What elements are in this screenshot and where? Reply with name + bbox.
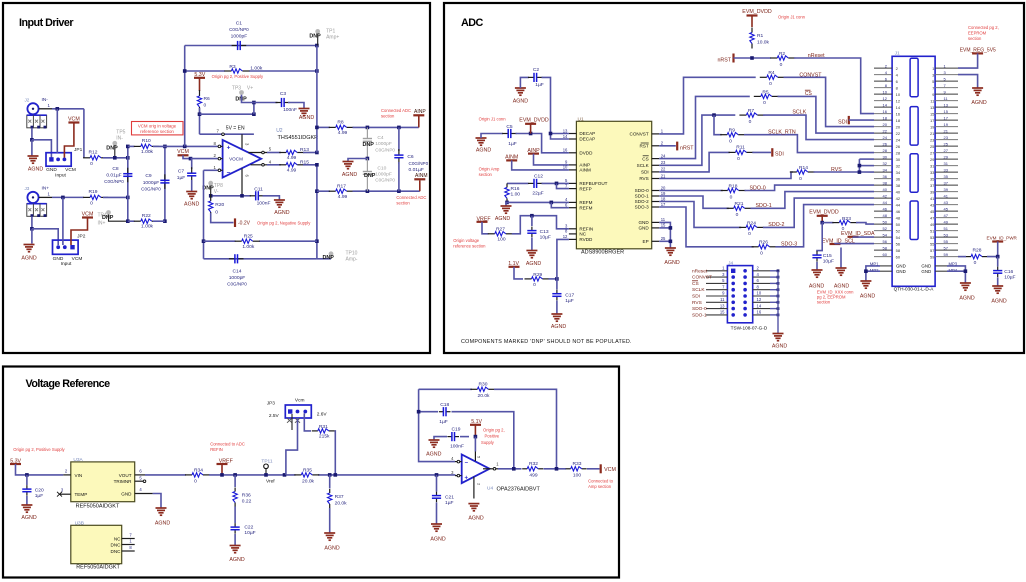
svg-text:49: 49 bbox=[944, 219, 949, 224]
svg-text:55: 55 bbox=[930, 241, 935, 246]
U1 pin 21 RVS bbox=[652, 178, 660, 180]
junction bbox=[163, 219, 167, 223]
svg-text:15: 15 bbox=[930, 111, 935, 116]
svg-text:SCLK: SCLK bbox=[637, 163, 650, 168]
svg-text:10: 10 bbox=[757, 291, 762, 296]
resistor R33 bbox=[566, 468, 571, 470]
svg-text:39: 39 bbox=[930, 189, 935, 194]
wire to TP10 bbox=[317, 258, 331, 260]
svg-text:20: 20 bbox=[661, 185, 666, 190]
svg-text:AGND: AGND bbox=[28, 167, 43, 173]
svg-text:SDO-2: SDO-2 bbox=[768, 222, 784, 228]
net tie SDI (R11) bbox=[771, 148, 773, 156]
svg-text:R7: R7 bbox=[748, 108, 755, 114]
power flag EVM_DVDD bbox=[747, 14, 758, 16]
wire C6 to AINM rail bbox=[398, 162, 400, 191]
wire C19 to AGND bbox=[434, 437, 447, 440]
svg-text:GND: GND bbox=[638, 220, 649, 225]
svg-text:AGND: AGND bbox=[468, 516, 483, 522]
svg-text:AINM: AINM bbox=[505, 155, 518, 161]
svg-text:36: 36 bbox=[883, 174, 888, 179]
junction bbox=[505, 201, 509, 205]
svg-text:42: 42 bbox=[883, 193, 888, 198]
svg-text:0: 0 bbox=[974, 260, 977, 266]
svg-text:ADS8900BRGER: ADS8900BRGER bbox=[581, 249, 624, 255]
svg-text:C1: C1 bbox=[236, 21, 243, 27]
wire CONVST to J1 row20 bbox=[784, 77, 875, 126]
svg-text:C6: C6 bbox=[407, 154, 414, 160]
svg-text:Input: Input bbox=[61, 261, 72, 267]
wire J1 pin3 to AGND bbox=[958, 75, 978, 88]
svg-text:+: + bbox=[465, 476, 469, 482]
svg-text:DVDD: DVDD bbox=[579, 151, 593, 156]
wire pin2 to nRST bbox=[659, 145, 676, 147]
svg-text:C22: C22 bbox=[244, 525, 253, 531]
U1 pin 22 SDI bbox=[652, 171, 660, 173]
svg-text:JP3: JP3 bbox=[267, 401, 276, 407]
svg-text:31: 31 bbox=[930, 163, 935, 168]
svg-text:0: 0 bbox=[194, 479, 197, 485]
svg-text:VCM: VCM bbox=[82, 211, 94, 217]
svg-text:REFIN: REFIN bbox=[210, 447, 223, 452]
op-amp U4 pin 3 (+in) bbox=[455, 475, 462, 477]
svg-text:10µF: 10µF bbox=[244, 530, 255, 536]
svg-text:MP2: MP2 bbox=[870, 268, 879, 273]
wire R6 to V+ rail bbox=[199, 108, 201, 134]
svg-text:C11: C11 bbox=[254, 186, 263, 192]
svg-text:1µF: 1µF bbox=[508, 141, 517, 147]
resistor R28 bbox=[966, 256, 971, 258]
U1 pin 18 SDO-2 bbox=[652, 201, 660, 203]
wire row59 to R28 bbox=[958, 256, 966, 258]
wire to C13 bbox=[531, 216, 533, 226]
svg-text:26: 26 bbox=[883, 141, 888, 146]
svg-text:R25: R25 bbox=[244, 234, 253, 240]
wire rail to opamp bbox=[318, 474, 456, 476]
ground AGND (C19) bbox=[429, 439, 440, 441]
svg-text:60: 60 bbox=[883, 252, 888, 257]
svg-text:SCLK: SCLK bbox=[792, 110, 806, 116]
wire to C21 bbox=[436, 475, 438, 492]
IC U1 (ADS8900BRGER) bbox=[576, 121, 651, 249]
svg-text:C13: C13 bbox=[540, 229, 549, 235]
wire feedback to -in bbox=[419, 389, 455, 461]
wire to pin7 REFP bbox=[557, 183, 569, 188]
junction bbox=[209, 194, 213, 198]
svg-text:AGND: AGND bbox=[21, 515, 36, 521]
wire V- rail bbox=[211, 195, 251, 197]
svg-text:SDO-2: SDO-2 bbox=[635, 199, 649, 204]
U1 pin 1 CONVST bbox=[652, 133, 660, 135]
svg-text:VCM: VCM bbox=[72, 256, 83, 262]
U1 pin 25 EP bbox=[652, 240, 660, 242]
capacitor C4 (DNP) bbox=[366, 127, 368, 138]
svg-text:12: 12 bbox=[563, 234, 568, 239]
wire row30 bbox=[859, 158, 874, 160]
resistor R7 bbox=[739, 114, 746, 116]
svg-text:24: 24 bbox=[896, 137, 901, 142]
wire VCM to pin2 bbox=[183, 155, 218, 158]
svg-text:AGND: AGND bbox=[430, 537, 445, 543]
svg-text:25: 25 bbox=[930, 144, 935, 149]
svg-text:R11: R11 bbox=[736, 144, 745, 150]
capacitor C5 bbox=[502, 133, 508, 135]
wire RVS bus rows30-34 bbox=[858, 159, 860, 172]
wire REFM line bbox=[507, 201, 569, 203]
svg-text:10: 10 bbox=[883, 89, 888, 94]
op-amp U2 pin 1 (-in) bbox=[218, 169, 223, 171]
svg-text:R22: R22 bbox=[142, 213, 151, 219]
svg-text:0: 0 bbox=[90, 200, 93, 206]
connector J4 (TSW-108-07-G-D) bbox=[727, 266, 752, 323]
svg-text:AGND: AGND bbox=[495, 216, 510, 222]
wire R25 right bbox=[259, 240, 317, 242]
svg-text:−: − bbox=[465, 461, 469, 467]
wire node N vertical bbox=[316, 165, 318, 259]
U1 pin 13 DECAP bbox=[569, 133, 577, 135]
wire C17 to AGND bbox=[556, 301, 558, 315]
svg-text:AGND: AGND bbox=[426, 451, 441, 457]
junction bbox=[189, 157, 193, 161]
wire C4/C10 midpoint to AGND bbox=[348, 159, 367, 162]
svg-text:20.0k: 20.0k bbox=[302, 479, 315, 485]
wire R10 node to opamp +in bbox=[153, 145, 218, 147]
wire C18 right to output bbox=[452, 412, 514, 469]
svg-text:13: 13 bbox=[720, 303, 725, 308]
op-amp U4 power pin 2 bbox=[473, 477, 475, 499]
wire J2 shield to gnd bbox=[31, 128, 33, 140]
svg-text:0: 0 bbox=[780, 62, 783, 68]
svg-text:C16: C16 bbox=[1004, 269, 1013, 275]
svg-text:C0G/NP0: C0G/NP0 bbox=[375, 178, 395, 183]
wire R3 right bbox=[249, 70, 317, 72]
svg-text:AGND: AGND bbox=[299, 115, 314, 121]
wire to AGND R16 bbox=[506, 202, 507, 206]
svg-text:section: section bbox=[396, 200, 410, 205]
junction bbox=[183, 145, 187, 149]
svg-text:EVM_DVDD: EVM_DVDD bbox=[742, 9, 772, 15]
wire EVM_DVDD stub2 bbox=[821, 216, 823, 223]
svg-text:5V = EN: 5V = EN bbox=[226, 125, 245, 131]
svg-text:R17: R17 bbox=[337, 183, 346, 189]
svg-text:nRST: nRST bbox=[680, 145, 694, 151]
wire SCLK to J1 row24 bbox=[763, 115, 874, 140]
junction bbox=[529, 132, 533, 136]
U1 pin 24 CS bbox=[652, 158, 660, 160]
svg-text:22: 22 bbox=[896, 131, 901, 136]
wire JP3 center to rail bbox=[286, 418, 298, 475]
svg-text:AGND: AGND bbox=[526, 261, 541, 267]
junction bbox=[25, 473, 29, 477]
svg-text:R23: R23 bbox=[842, 216, 851, 222]
capacitor C12 bbox=[528, 182, 534, 184]
svg-text:13: 13 bbox=[563, 128, 568, 133]
wire node to pin12 RVDD bbox=[557, 239, 569, 279]
wire VREF rail bbox=[209, 474, 296, 476]
capacitor C1 bbox=[232, 45, 238, 47]
svg-text:R29: R29 bbox=[533, 272, 542, 278]
svg-text:Input: Input bbox=[55, 173, 66, 179]
svg-text:13: 13 bbox=[944, 102, 949, 107]
IC U3B (REF5050AIDGKT) bbox=[71, 525, 122, 563]
wire filter left vertical bbox=[127, 146, 129, 221]
wire SCLK up bbox=[659, 115, 735, 165]
svg-text:J4: J4 bbox=[728, 260, 733, 266]
capacitor C3 bbox=[276, 102, 282, 104]
section box: ADC bbox=[444, 3, 1024, 353]
U1 pin 11 GND bbox=[652, 221, 660, 223]
power flag EVM_DVDD bbox=[817, 215, 828, 217]
svg-text:REFM: REFM bbox=[579, 200, 592, 205]
svg-text:RVS: RVS bbox=[692, 300, 702, 306]
resistor R26 bbox=[752, 246, 759, 248]
svg-text:AGND: AGND bbox=[860, 294, 875, 300]
wire IN+ down to JP2 center bbox=[62, 197, 64, 245]
wire to VCM tie bbox=[587, 468, 600, 470]
wire bbox=[128, 220, 135, 222]
svg-text:Origin pg 2, Positive Supply: Origin pg 2, Positive Supply bbox=[13, 447, 65, 452]
svg-text:R18: R18 bbox=[729, 184, 738, 190]
wire bbox=[460, 436, 469, 438]
J4 row 11/12 (RVS) bbox=[706, 301, 727, 303]
svg-text:GND: GND bbox=[638, 226, 649, 231]
wire gnd to JP1 pin1 bbox=[32, 140, 52, 159]
resistor R6 bbox=[199, 90, 201, 96]
wire MP to AGND bbox=[866, 266, 880, 281]
U1 pin 5 REFBUFOUT bbox=[569, 182, 577, 184]
svg-text:33: 33 bbox=[944, 167, 949, 172]
svg-text:499: 499 bbox=[529, 472, 537, 478]
svg-text:55: 55 bbox=[944, 239, 949, 244]
svg-text:26: 26 bbox=[896, 144, 901, 149]
wire R13 to node P bbox=[303, 152, 317, 154]
svg-text:15: 15 bbox=[720, 310, 725, 315]
svg-text:MP4: MP4 bbox=[949, 268, 958, 273]
capacitor C7 bbox=[191, 167, 193, 173]
svg-text:41: 41 bbox=[944, 193, 949, 198]
svg-text:GND: GND bbox=[896, 269, 906, 274]
section box: Voltage Reference bbox=[3, 367, 619, 578]
svg-text:56: 56 bbox=[883, 239, 888, 244]
wire row32 bbox=[859, 165, 874, 167]
op-amp U2 pin 8 (+in) bbox=[218, 145, 223, 147]
svg-text:31: 31 bbox=[944, 161, 949, 166]
svg-text:11: 11 bbox=[661, 217, 666, 222]
svg-text:Input Driver: Input Driver bbox=[19, 17, 74, 29]
U1 pin 12 RVDD bbox=[569, 238, 577, 240]
junction bbox=[240, 194, 244, 198]
junction bbox=[30, 138, 34, 142]
wire C2 to DECAP pins bbox=[542, 77, 551, 133]
svg-text:38: 38 bbox=[896, 183, 901, 188]
svg-text:100nF: 100nF bbox=[450, 444, 464, 450]
svg-text:R9: R9 bbox=[729, 128, 736, 134]
svg-text:NC: NC bbox=[579, 232, 586, 237]
wire R27 to REFIN bbox=[512, 216, 569, 234]
svg-text:AGND: AGND bbox=[959, 296, 974, 302]
svg-text:AGND: AGND bbox=[274, 210, 289, 216]
wire RVS bbox=[659, 172, 793, 179]
U1 pin 23 SCLK bbox=[652, 164, 660, 166]
svg-text:0: 0 bbox=[736, 212, 739, 218]
op-amp U2 pin 2 (VOCM) bbox=[218, 158, 223, 160]
wire bbox=[544, 468, 567, 470]
U3B pin 1 DNC bbox=[122, 544, 135, 546]
op-amp U2 (THS4551) bbox=[223, 140, 262, 178]
svg-text:AINM: AINM bbox=[415, 173, 428, 179]
svg-text:1000pF: 1000pF bbox=[375, 172, 392, 178]
wire out- to R15 bbox=[267, 164, 281, 166]
capacitor C20 bbox=[26, 485, 28, 489]
junction bbox=[315, 151, 319, 155]
junction bbox=[126, 196, 130, 200]
ground AGND (C21) bbox=[431, 523, 442, 525]
wire AINP stub bbox=[418, 116, 420, 127]
svg-text:IN+: IN+ bbox=[98, 221, 106, 227]
svg-text:ADC: ADC bbox=[461, 17, 483, 29]
svg-text:J1: J1 bbox=[895, 50, 900, 56]
wire AINM to pin10 bbox=[512, 160, 569, 170]
svg-text:J2: J2 bbox=[25, 98, 30, 103]
wire SDO-0 bbox=[659, 190, 723, 192]
resistor R17 bbox=[329, 190, 336, 192]
svg-text:R5: R5 bbox=[762, 89, 769, 95]
svg-text:4.99: 4.99 bbox=[338, 194, 348, 200]
svg-text:46: 46 bbox=[883, 206, 888, 211]
svg-text:27: 27 bbox=[930, 150, 935, 155]
wire to pin6 REFM bbox=[551, 202, 569, 207]
junction bbox=[264, 473, 268, 477]
U1 pin 20 SDO-0 bbox=[652, 190, 660, 192]
svg-text:nRST: nRST bbox=[717, 57, 731, 63]
wire CS to J1 row22 bbox=[778, 96, 875, 133]
junction bbox=[669, 226, 673, 230]
svg-text:C0G/NP0: C0G/NP0 bbox=[104, 179, 124, 184]
resistor R36 bbox=[234, 488, 236, 492]
test point TP1 (DNP) bbox=[315, 29, 320, 34]
svg-text:54: 54 bbox=[883, 232, 888, 237]
svg-text:0: 0 bbox=[760, 251, 763, 257]
svg-text:1000pF: 1000pF bbox=[229, 275, 246, 281]
svg-text:24: 24 bbox=[883, 135, 888, 140]
ground AGND (C16) bbox=[992, 285, 1003, 287]
capacitor C21 bbox=[436, 492, 438, 496]
svg-text:RVS: RVS bbox=[639, 176, 648, 181]
junction bbox=[315, 239, 319, 243]
svg-text:OPA2376AIDBVT: OPA2376AIDBVT bbox=[497, 486, 541, 492]
ground AGND (J2) bbox=[28, 155, 39, 157]
svg-text:21: 21 bbox=[944, 128, 949, 133]
wire C18 left bbox=[419, 411, 438, 413]
ground AGND (C4/C10 mid) bbox=[343, 161, 354, 163]
svg-text:100nF: 100nF bbox=[257, 200, 271, 206]
svg-text:C3: C3 bbox=[280, 91, 287, 97]
svg-text:100: 100 bbox=[497, 237, 505, 243]
junction bbox=[315, 69, 319, 73]
svg-text:+: + bbox=[227, 145, 231, 152]
svg-text:4.99: 4.99 bbox=[287, 155, 297, 161]
svg-text:AGND: AGND bbox=[155, 520, 170, 526]
svg-text:29: 29 bbox=[930, 157, 935, 162]
ground AGND (C17) bbox=[551, 313, 562, 315]
wire J4 bus to AGND bbox=[777, 271, 779, 334]
svg-text:37: 37 bbox=[930, 183, 935, 188]
svg-text:SDI: SDI bbox=[641, 170, 649, 175]
svg-text:54: 54 bbox=[896, 235, 901, 240]
wire to R37 bbox=[329, 475, 331, 489]
svg-text:IN-: IN- bbox=[116, 135, 123, 141]
junction bbox=[397, 126, 401, 130]
resistor R21 bbox=[727, 207, 734, 209]
svg-text:57: 57 bbox=[930, 248, 935, 253]
wire R14 to J1 row34 bbox=[814, 171, 875, 173]
svg-text:Connected ADC: Connected ADC bbox=[396, 195, 426, 200]
svg-text:JP1: JP1 bbox=[74, 147, 83, 153]
svg-text:14: 14 bbox=[757, 303, 762, 308]
svg-text:35: 35 bbox=[944, 174, 949, 179]
wire MP4 bbox=[947, 270, 965, 272]
op-amp U2 pin 7 bbox=[222, 133, 225, 136]
wire VREF stub bbox=[221, 464, 223, 475]
svg-text:10µF: 10µF bbox=[1004, 275, 1015, 281]
wire SDO-3 bbox=[659, 207, 754, 247]
svg-text:C2: C2 bbox=[533, 67, 540, 73]
svg-text:28: 28 bbox=[883, 148, 888, 153]
wire IN- from J2 bbox=[39, 108, 52, 110]
svg-text:DNC: DNC bbox=[111, 542, 122, 547]
svg-text:47: 47 bbox=[930, 215, 935, 220]
wire node P vertical bbox=[316, 46, 318, 153]
net tie nRST (top) bbox=[732, 54, 734, 63]
capacitor C16 bbox=[997, 267, 999, 271]
svg-text:38: 38 bbox=[883, 180, 888, 185]
svg-text:-0.2V: -0.2V bbox=[238, 221, 251, 227]
svg-text:1.00: 1.00 bbox=[511, 192, 521, 198]
wire to C20 bbox=[26, 475, 28, 485]
junction bbox=[283, 473, 287, 477]
wire R3 left bbox=[185, 70, 225, 72]
junction bbox=[252, 101, 256, 105]
svg-text:1µF: 1µF bbox=[565, 298, 574, 304]
wire AGND to C5 bbox=[481, 134, 503, 139]
svg-text:EVM_DVDD: EVM_DVDD bbox=[519, 117, 549, 123]
resistor R5 bbox=[754, 95, 761, 97]
test point TP4 (DNP) bbox=[106, 210, 111, 215]
junction bbox=[30, 227, 34, 231]
U1 pin 14 DECAP bbox=[569, 138, 577, 140]
junction bbox=[366, 126, 370, 130]
svg-text:32: 32 bbox=[883, 161, 888, 166]
wire CS up bbox=[659, 96, 750, 158]
svg-text:Amp section: Amp section bbox=[588, 484, 612, 489]
svg-text:18: 18 bbox=[896, 118, 901, 123]
note box: VCM orig in voltage reference section bbox=[132, 122, 184, 135]
svg-text:AGND: AGND bbox=[513, 99, 528, 105]
connector JP2 bbox=[53, 240, 79, 254]
capacitor C14 bbox=[229, 258, 235, 260]
wire GND to AGND bbox=[153, 494, 161, 509]
U3B pin 8 DNC bbox=[122, 550, 135, 552]
junction bbox=[964, 269, 968, 273]
svg-text:Origin pg 2, Positive Supply: Origin pg 2, Positive Supply bbox=[212, 74, 264, 79]
svg-text:0: 0 bbox=[204, 102, 207, 108]
svg-text:Amp-: Amp- bbox=[346, 256, 358, 262]
svg-text:C0G/NP0: C0G/NP0 bbox=[227, 282, 247, 287]
junction bbox=[366, 157, 370, 161]
wire down to C16 bbox=[997, 257, 999, 267]
svg-text:J3: J3 bbox=[25, 186, 30, 191]
svg-text:U4: U4 bbox=[487, 486, 493, 492]
